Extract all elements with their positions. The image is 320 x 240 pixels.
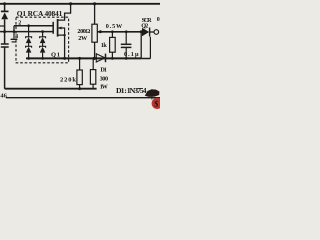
capacitor stub bypass (bottom plate) (12, 41, 17, 43)
wire Q1 source stub (58, 35, 65, 58)
transistor Q1 substrate arrowhead (58, 27, 62, 30)
transistor Q1 substrate lead (58, 28, 64, 35)
capacitor series antenna (bottom plate) (1, 46, 9, 48)
resistor R1 200 lead top (94, 4, 96, 24)
wire zener B mid (42, 43, 44, 46)
wire top supply rail (0, 3, 160, 5)
zener B1 triangle (40, 37, 46, 43)
resistor 220k body (77, 70, 82, 85)
svg-text:1W: 1W (100, 84, 109, 91)
dashed package outline of Q1 (16, 17, 69, 63)
resistor R2 1k lead bottom (111, 52, 113, 58)
node R2 top dot (111, 30, 114, 33)
zener A2 cathode bar (26, 46, 32, 47)
svg-text:46: 46 (0, 93, 7, 100)
node R2 bottom dot (111, 57, 114, 60)
capacitor C1 top plate (121, 43, 132, 45)
zener B2 triangle (40, 47, 46, 53)
svg-text:2: 2 (18, 20, 21, 26)
transistor Q1 gate bar (52, 22, 54, 34)
logo watermark dark shape (145, 89, 160, 97)
zener pair A vertical lead from gate2 (28, 26, 30, 37)
node zener B bottom dot (41, 57, 44, 60)
wire pin2 gate2 line (14, 25, 53, 27)
svg-text:1k: 1k (101, 42, 108, 49)
capacitor C1 lead top (125, 32, 127, 44)
logo watermark red seal (152, 98, 163, 109)
resistor 220k lead bottom (79, 85, 81, 89)
svg-text:3: 3 (15, 34, 18, 40)
node zener A bottom dot (27, 57, 30, 60)
wire SCR gate lead (149, 37, 151, 59)
resistor 300 body (90, 70, 95, 85)
node zener A top dot (27, 24, 30, 27)
svg-text:Q2: Q2 (141, 22, 148, 29)
wire common bottom line (26, 57, 141, 59)
capacitor stub bypass (top plate) (11, 38, 18, 40)
diode D1 cathode bar (105, 54, 107, 63)
zener B2 cathode bar (40, 46, 46, 47)
capacitor C1 lead bottom (125, 48, 127, 59)
wire pin2 jog down (13, 26, 15, 32)
capacitor C1 bottom plate (121, 46, 132, 48)
wire Q1 drain stub (58, 4, 71, 20)
node C1 bottom dot (125, 57, 128, 60)
resistor R2 1k body (110, 37, 116, 52)
svg-text:300: 300 (100, 76, 109, 83)
wire gate to bottom corner (141, 58, 150, 60)
SCR Q2 triangle (142, 28, 149, 37)
svg-text:D1: D1 (100, 67, 107, 74)
svg-text:D1 : 1N3754: D1 : 1N3754 (116, 86, 147, 95)
wire zener A mid (28, 43, 30, 46)
resistor 300 lead bottom (92, 84, 94, 89)
zener B1 cathode bar (40, 37, 46, 38)
zener A1 cathode bar (26, 37, 32, 38)
wire ground bottom (5, 88, 97, 90)
wire pin3 gate1 line (0, 31, 53, 33)
capacitor series antenna (top plate) (1, 43, 9, 45)
svg-text:220k: 220k (60, 77, 76, 84)
resistor 300 lead top (92, 58, 94, 69)
node zener B top dot (41, 30, 44, 33)
wire left rail lower (4, 47, 6, 88)
svg-text:$: $ (154, 100, 158, 109)
node source stub corner (63, 34, 65, 36)
wire left rail middle (4, 19, 6, 43)
node 220k top dot (78, 57, 81, 60)
diode D1 triangle (96, 54, 105, 62)
node C1 top dot (125, 30, 128, 33)
zener A1 triangle (26, 37, 32, 43)
node divider tap dot (99, 30, 102, 33)
wire zener A tail (28, 53, 30, 59)
node R1 top junction dot (93, 2, 96, 5)
diode input protection (triangle) (1, 13, 8, 20)
node rail pin3 junction (3, 30, 6, 33)
svg-text:Q1: Q1 (51, 52, 60, 59)
zener A2 triangle (26, 47, 32, 53)
logo watermark stem (151, 97, 153, 101)
terminal output circle (154, 30, 159, 35)
SCR Q2 cathode bar (149, 28, 151, 37)
wire SCR cathode to terminal (150, 31, 154, 33)
svg-text:200Ω: 200Ω (77, 28, 90, 35)
wire mid divider line (97, 31, 142, 33)
node pin2 pin3 jog junction (13, 30, 16, 33)
capacitor stub bypass (lead) (13, 32, 15, 39)
resistor R2 1k lead top (111, 32, 113, 38)
node R1 bottom D1 anode junction (93, 57, 96, 60)
svg-text:Q1 RCA 40841: Q1 RCA 40841 (17, 9, 63, 18)
resistor 220k lead top (79, 58, 81, 70)
svg-text:0.5W: 0.5W (106, 23, 123, 30)
node drain junction dot (69, 2, 72, 5)
border bottom rule (6, 97, 160, 99)
node source bottom dot (63, 57, 66, 60)
wire left rail upper (4, 4, 6, 12)
zener pair B vertical lead from gate1 (42, 32, 44, 37)
node SCR branch dot (140, 30, 143, 33)
SCR Q2 branch vertical (140, 32, 142, 59)
diode input protection (cathode bar) (1, 10, 9, 12)
wire zener B tail (42, 53, 44, 59)
node bottom 220k dot (78, 87, 81, 90)
transistor Q1 channel bar (57, 19, 59, 37)
resistor R1 200 lead bottom (94, 42, 96, 58)
svg-text:2W: 2W (78, 35, 88, 42)
resistor R1 200 body (92, 24, 97, 42)
svg-text:0.1μ: 0.1μ (124, 51, 139, 58)
node left rail top dot (3, 2, 6, 5)
paper background (0, 0, 160, 110)
wire input stub left edge (0, 25, 5, 27)
svg-text:0: 0 (157, 17, 160, 23)
